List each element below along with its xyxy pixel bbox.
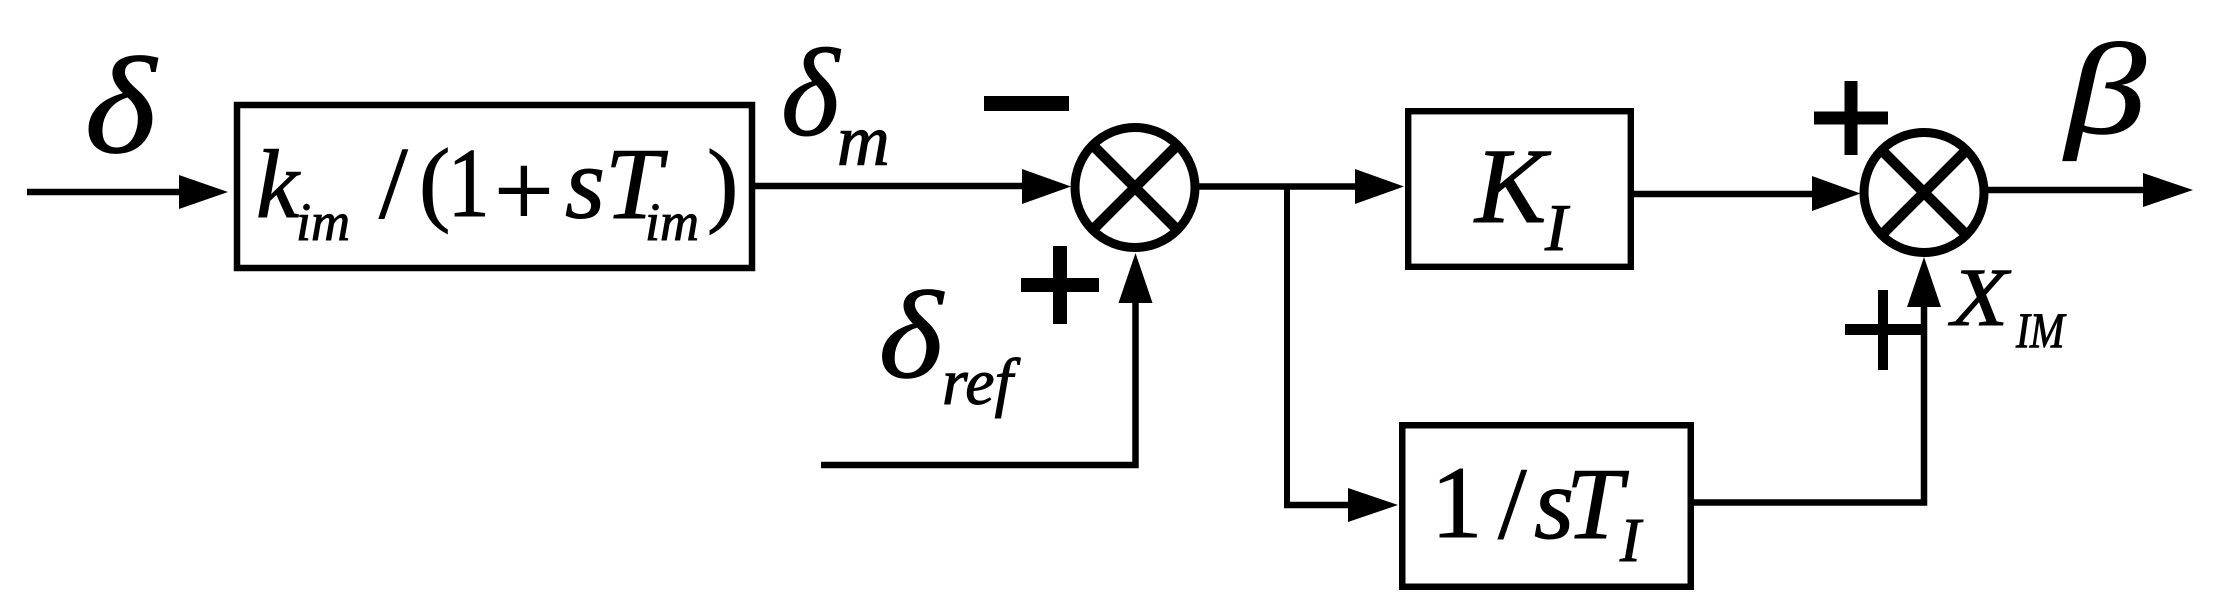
plus sign at S2 bottom input bbox=[1845, 290, 1922, 370]
svg-text:1: 1 bbox=[1431, 446, 1483, 560]
node X_IM label bbox=[1948, 252, 2067, 358]
svg-text:m: m bbox=[837, 100, 890, 181]
block KI bbox=[1408, 111, 1631, 267]
svg-text:β: β bbox=[2062, 18, 2146, 162]
wire block1 to summer S1 bbox=[755, 169, 1071, 204]
svg-text:s: s bbox=[565, 127, 605, 241]
summer S1 (circle with X) bbox=[1075, 128, 1195, 248]
svg-text:IM: IM bbox=[2015, 302, 2067, 357]
svg-text:δ: δ bbox=[85, 29, 159, 182]
svg-text:+: + bbox=[494, 132, 554, 249]
wire delta_ref into S1 bottom bbox=[821, 253, 1153, 465]
svg-text:): ) bbox=[707, 132, 738, 236]
node delta_m label bbox=[781, 25, 890, 181]
svg-text:I: I bbox=[1544, 191, 1570, 265]
wire input arrow into block kim bbox=[27, 175, 228, 209]
block G1 kim/(1+sTim) bbox=[237, 105, 752, 268]
svg-text:ref: ref bbox=[942, 346, 1021, 419]
wire S1 to block KI bbox=[1196, 169, 1404, 204]
svg-text:1: 1 bbox=[448, 128, 490, 238]
plus sign at S2 left-top input bbox=[1814, 81, 1888, 155]
svg-text:X: X bbox=[1948, 252, 2011, 344]
svg-text:I: I bbox=[1619, 507, 1644, 575]
svg-text:/: / bbox=[379, 127, 408, 241]
svg-text:im: im bbox=[296, 192, 350, 252]
wire 1/sTI output up into S2 bottom bbox=[1691, 257, 1941, 503]
wire KI to summer S2 bbox=[1631, 176, 1861, 211]
svg-text:k: k bbox=[256, 131, 301, 238]
node delta_ref label bbox=[879, 267, 1021, 419]
svg-text:/: / bbox=[1498, 447, 1527, 561]
svg-text:K: K bbox=[1473, 128, 1551, 246]
svg-text:(: ( bbox=[419, 131, 450, 235]
svg-text:im: im bbox=[645, 192, 699, 252]
wire output arrow from S2 bbox=[1986, 173, 2193, 207]
svg-text:δ: δ bbox=[781, 25, 841, 163]
svg-text:δ: δ bbox=[879, 267, 945, 405]
wire branch down from node after S1 bbox=[1284, 186, 1398, 522]
minus sign at S1 top input bbox=[984, 96, 1069, 111]
summer S2 (circle with X) bbox=[1864, 133, 1984, 253]
plus sign at S1 bottom input bbox=[1021, 246, 1099, 324]
block 1/sTI bbox=[1402, 425, 1691, 587]
